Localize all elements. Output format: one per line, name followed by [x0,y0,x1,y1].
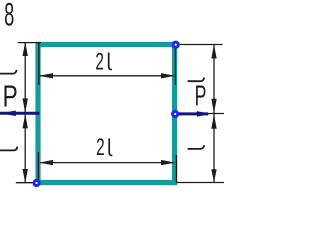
left dimension line l+l [24,42,26,183]
top 2l dimension line [40,75,174,77]
svg-text:2: 2 [96,135,105,161]
left dim arrow up mid [23,114,28,128]
top 2l arrow right [161,73,175,78]
label l hook bottom [109,138,112,155]
right dim arrow down mid [211,99,216,113]
frame right column [172,42,177,185]
bar over P left [0,70,17,74]
left dim arrow down bottom [23,169,28,183]
extension line 2l top-right [174,45,176,85]
svg-text:P: P [195,81,207,112]
label l left lower (rotated) [0,147,17,151]
extension line 2l bottom-left [37,152,39,183]
extension line 2l bottom-right [175,155,177,183]
frame bottom member [36,180,177,185]
bar over P right [188,78,205,82]
right dim arrow up mid [211,114,216,129]
frame top member [36,42,177,47]
top 2l arrow left [39,73,53,78]
extension line 2l top-left [38,43,40,85]
label l hook top [109,53,112,70]
extension line top-right [176,44,223,46]
node top-right [173,42,178,47]
right dim arrow down bottom [211,169,216,182]
extension line bottom-right [176,182,224,184]
node mid-right [173,111,178,116]
right dim arrow up top [211,45,216,59]
bottom 2l dimension line [40,162,174,164]
extension line mid-right [176,113,224,115]
force P left arrow [0,112,40,115]
svg-text:8: 8 [4,0,14,33]
svg-text:P: P [3,78,18,113]
bottom 2l arrow right [161,160,175,165]
node bottom-left [34,180,39,185]
frame left column [35,42,40,185]
right dimension line l+l [213,45,215,183]
extension line top-left [18,42,41,44]
left dim arrow down mid [23,98,28,112]
extension line bottom-left [16,182,37,184]
label l right lower (rotated) [188,145,205,149]
bottom 2l arrow left [39,160,53,165]
left dim arrow up top [23,42,28,56]
svg-text:2: 2 [95,49,104,75]
force P right arrow [175,112,208,115]
